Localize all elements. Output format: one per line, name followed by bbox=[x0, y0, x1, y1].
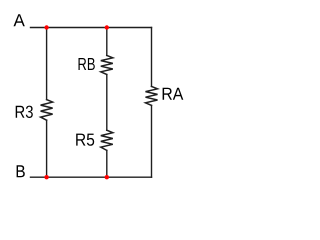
label R3 bbox=[16, 106, 33, 118]
wire left branch upper bbox=[46, 28, 48, 100]
wire right branch upper bbox=[151, 28, 153, 87]
resistor R5 bbox=[101, 130, 113, 150]
node B label bbox=[17, 165, 25, 177]
resistor R3 bbox=[41, 100, 53, 121]
resistor RB bbox=[101, 55, 113, 74]
junction dot top-middle bbox=[105, 25, 109, 29]
label R5 bbox=[76, 134, 94, 146]
label RB bbox=[79, 58, 95, 70]
wire middle branch between RB and R5 bbox=[106, 75, 108, 131]
junction dot top-left bbox=[44, 25, 48, 29]
wire left branch lower bbox=[46, 120, 48, 177]
resistor RA bbox=[146, 86, 158, 105]
junction dot bottom-middle bbox=[105, 175, 109, 179]
junction dot bottom-left bbox=[44, 175, 48, 179]
wire right branch lower bbox=[151, 105, 153, 177]
wire middle branch lower bbox=[106, 150, 108, 177]
node A label bbox=[14, 14, 25, 26]
wire bottom bus B bbox=[31, 176, 152, 178]
wire middle branch upper bbox=[106, 28, 108, 56]
label RA bbox=[163, 88, 184, 100]
wire top bus A bbox=[31, 27, 152, 29]
